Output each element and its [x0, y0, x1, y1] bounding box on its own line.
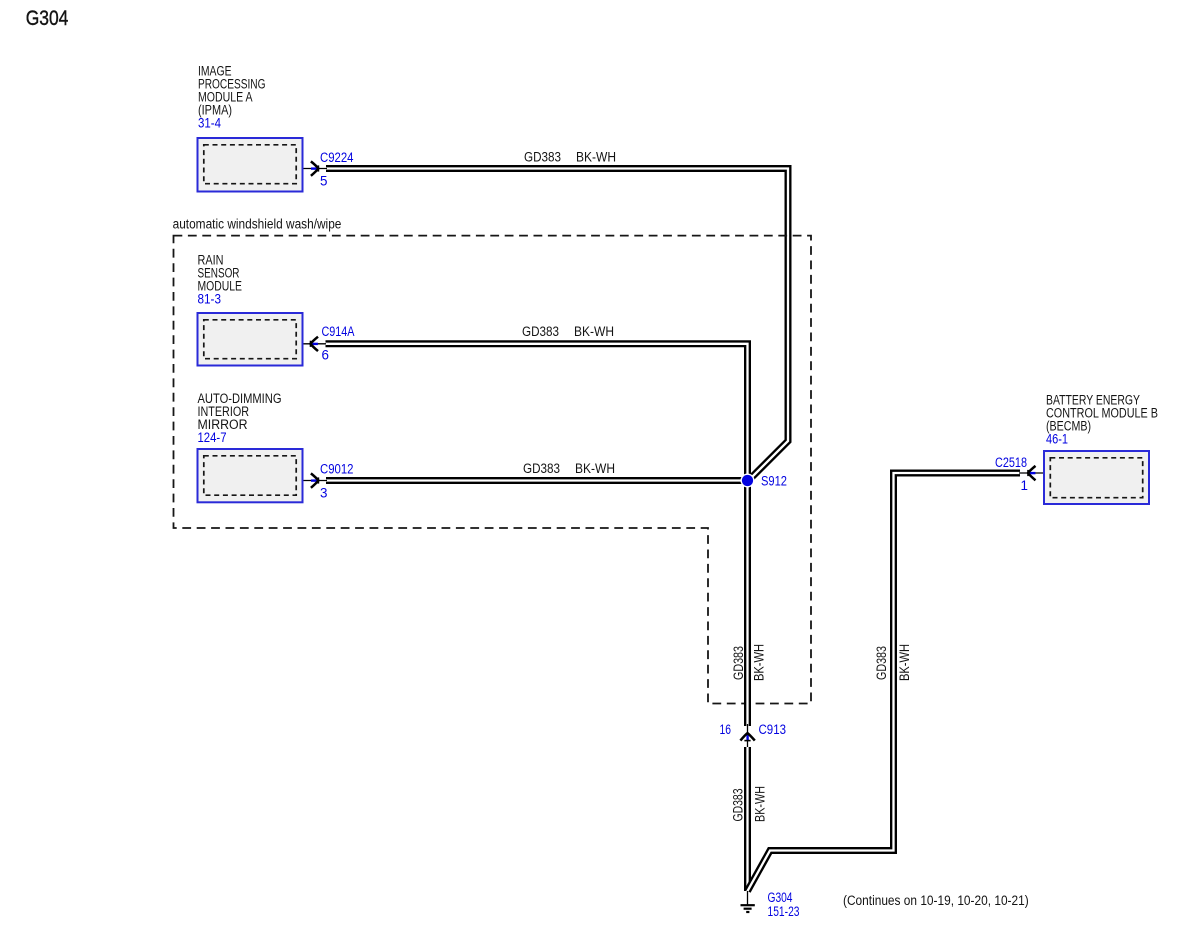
module Auto-Dimming Interior Mirror box	[198, 449, 303, 502]
wire W5 vertical label GD383 BK-WH	[730, 786, 767, 822]
svg-text:31-4: 31-4	[198, 116, 221, 131]
svg-text:GD383: GD383	[524, 150, 561, 165]
wire W1 GD383 BK-WH from IPMA C9224 to splice S912	[326, 169, 788, 482]
svg-text:BK-WH: BK-WH	[574, 324, 614, 339]
connector C9224 pin 5	[304, 150, 354, 189]
module IPMA label	[198, 63, 266, 130]
svg-text:C2518: C2518	[995, 455, 1027, 470]
module Rain Sensor box	[198, 313, 303, 366]
connector C913 pin 16	[720, 722, 787, 749]
svg-text:BK-WH: BK-WH	[576, 150, 616, 165]
module Auto-Dimming Interior Mirror label	[198, 391, 282, 445]
svg-text:151-23: 151-23	[768, 904, 800, 919]
svg-text:C9224: C9224	[320, 150, 354, 165]
svg-text:GD383: GD383	[731, 646, 746, 680]
svg-text:3: 3	[320, 486, 327, 501]
wire W4 from splice S912 down to C913	[744, 481, 751, 727]
connector C2518 pin 1	[995, 455, 1043, 493]
svg-text:BK-WH: BK-WH	[897, 644, 912, 681]
svg-text:G304: G304	[768, 890, 793, 905]
svg-text:5: 5	[320, 174, 327, 189]
splice S912	[741, 474, 788, 489]
wire W2 label GD383 BK-WH	[522, 324, 614, 339]
dashed region border	[174, 236, 812, 704]
svg-text:C9012: C9012	[320, 461, 354, 476]
svg-text:C914A: C914A	[322, 324, 355, 339]
wire W5 from C913 down to ground G304	[744, 747, 751, 891]
connector C914A pin 6	[304, 324, 355, 363]
svg-text:124-7: 124-7	[198, 430, 227, 445]
svg-text:6: 6	[322, 348, 329, 363]
svg-text:S912: S912	[761, 474, 787, 489]
svg-text:(Continues on 10-19, 10-20, 10: (Continues on 10-19, 10-20, 10-21)	[843, 893, 1029, 908]
svg-text:G304: G304	[26, 6, 69, 30]
svg-text:GD383: GD383	[523, 461, 560, 476]
module Rain Sensor Module label	[198, 252, 243, 306]
svg-text:1: 1	[1021, 478, 1028, 493]
ground label G304 151-23	[768, 890, 800, 919]
svg-text:GD383: GD383	[730, 789, 745, 822]
svg-text:BK-WH: BK-WH	[575, 461, 615, 476]
wire W3 GD383 BK-WH from C9012 to splice S912	[326, 477, 748, 484]
module BECMB label	[1046, 392, 1158, 446]
wire W2 GD383 BK-WH from C914A to splice S912	[326, 344, 748, 481]
wire W6 GD383 BK-WH from C2518 to ground junction	[748, 473, 1021, 891]
svg-text:GD383: GD383	[522, 324, 559, 339]
svg-text:BK-WH: BK-WH	[752, 644, 767, 681]
module BECMB box	[1044, 451, 1149, 504]
svg-text:GD383: GD383	[874, 646, 889, 680]
svg-text:46-1: 46-1	[1046, 432, 1068, 447]
svg-text:BK-WH: BK-WH	[752, 786, 767, 822]
wire W3 label GD383 BK-WH	[523, 461, 615, 476]
svg-text:16: 16	[720, 722, 732, 737]
ground G304 symbol	[741, 891, 755, 912]
svg-text:C913: C913	[759, 722, 787, 737]
wire W4 vertical label GD383 BK-WH	[731, 644, 767, 681]
wire W1 label GD383 BK-WH	[524, 150, 616, 165]
svg-text:81-3: 81-3	[198, 291, 222, 306]
module IPMA box	[198, 138, 303, 192]
wire W6 vertical label GD383 BK-WH	[874, 644, 912, 681]
connector C9012 pin 3	[304, 461, 354, 500]
svg-text:automatic windshield wash/wipe: automatic windshield wash/wipe	[173, 217, 342, 232]
